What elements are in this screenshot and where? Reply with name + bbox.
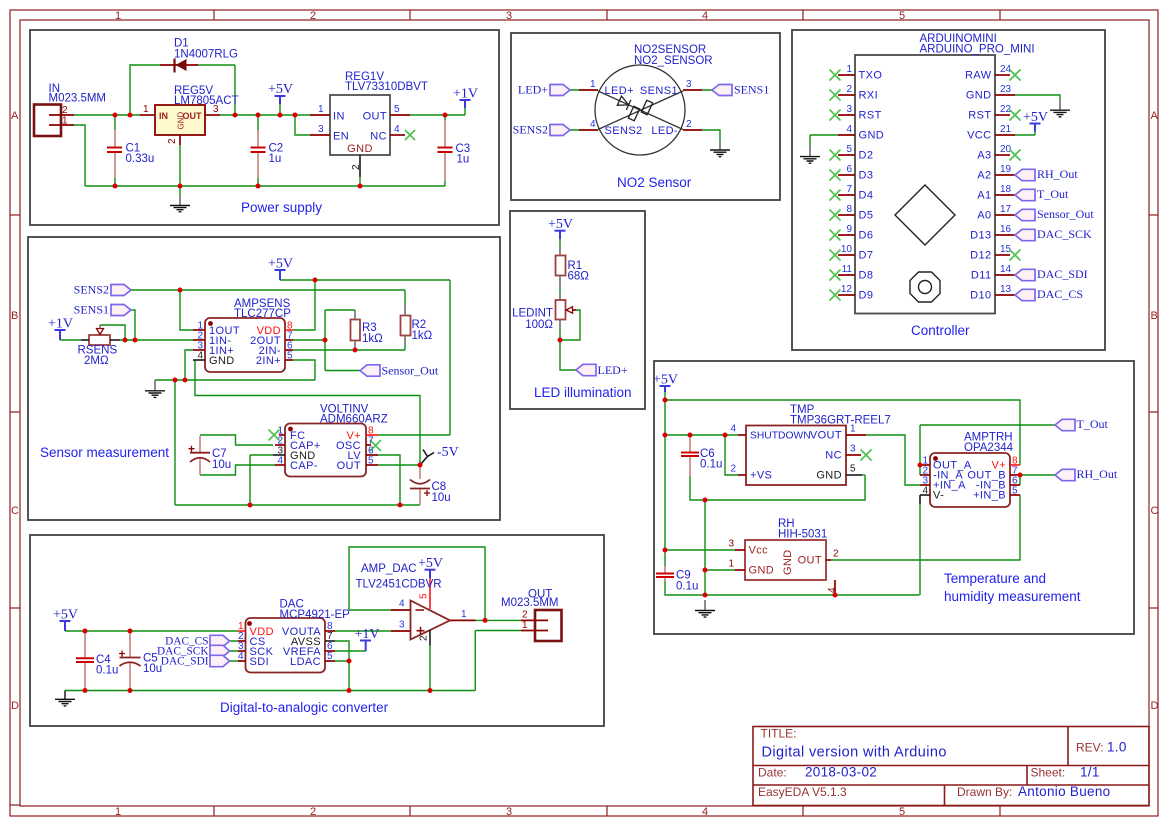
svg-text:LED+: LED+ bbox=[605, 85, 634, 97]
svg-text:5: 5 bbox=[327, 651, 333, 662]
svg-text:M023.5MM: M023.5MM bbox=[501, 597, 559, 609]
svg-text:11: 11 bbox=[842, 264, 853, 275]
svg-text:D10: D10 bbox=[970, 290, 991, 302]
svg-text:D5: D5 bbox=[859, 210, 874, 222]
svg-text:9: 9 bbox=[846, 224, 852, 235]
svg-text:3: 3 bbox=[846, 104, 852, 115]
svg-text:2: 2 bbox=[351, 164, 362, 170]
svg-text:LED illumination: LED illumination bbox=[534, 385, 632, 400]
svg-text:1/1: 1/1 bbox=[1080, 765, 1100, 780]
svg-text:5: 5 bbox=[287, 351, 293, 362]
svg-text:D7: D7 bbox=[859, 250, 874, 262]
svg-text:4: 4 bbox=[399, 599, 405, 610]
svg-text:RH_Out: RH_Out bbox=[1077, 467, 1118, 481]
svg-text:OPA2344: OPA2344 bbox=[964, 442, 1014, 454]
svg-text:SENS2: SENS2 bbox=[74, 283, 109, 297]
svg-text:3: 3 bbox=[686, 79, 692, 90]
svg-text:RXI: RXI bbox=[859, 90, 879, 102]
svg-text:Controller: Controller bbox=[911, 323, 970, 338]
svg-text:2018-03-02: 2018-03-02 bbox=[805, 765, 877, 780]
svg-text:10u: 10u bbox=[212, 459, 231, 471]
svg-text:T_Out: T_Out bbox=[1077, 417, 1109, 431]
svg-text:+1V: +1V bbox=[355, 627, 380, 642]
svg-text:RST: RST bbox=[859, 110, 882, 122]
svg-text:SENS1: SENS1 bbox=[734, 82, 769, 96]
svg-text:4: 4 bbox=[702, 806, 708, 818]
svg-text:Sensor_Out: Sensor_Out bbox=[382, 364, 439, 378]
svg-text:B: B bbox=[1151, 310, 1158, 322]
svg-text:DAC_SDI: DAC_SDI bbox=[1037, 267, 1088, 281]
svg-text:68Ω: 68Ω bbox=[568, 271, 590, 283]
svg-text:1: 1 bbox=[461, 609, 467, 620]
svg-text:D6: D6 bbox=[859, 230, 874, 242]
svg-text:4: 4 bbox=[277, 456, 283, 467]
svg-text:1u: 1u bbox=[269, 153, 282, 165]
svg-text:3: 3 bbox=[399, 620, 405, 631]
svg-text:3: 3 bbox=[728, 539, 734, 550]
svg-text:REV:: REV: bbox=[1076, 741, 1104, 755]
svg-text:NO2_SENSOR: NO2_SENSOR bbox=[634, 55, 713, 67]
svg-text:18: 18 bbox=[1000, 184, 1012, 195]
svg-text:D: D bbox=[11, 700, 19, 712]
svg-text:0.1u: 0.1u bbox=[676, 581, 698, 593]
svg-text:SENS1: SENS1 bbox=[74, 303, 109, 317]
svg-text:humidity measurement: humidity measurement bbox=[944, 589, 1081, 604]
svg-text:LED-: LED- bbox=[651, 125, 678, 137]
svg-text:D4: D4 bbox=[859, 190, 874, 202]
svg-text:4: 4 bbox=[238, 651, 244, 662]
svg-text:1kΩ: 1kΩ bbox=[412, 330, 433, 342]
svg-text:D13: D13 bbox=[970, 230, 991, 242]
svg-text:NO2 Sensor: NO2 Sensor bbox=[617, 175, 692, 190]
svg-text:3: 3 bbox=[506, 806, 512, 818]
svg-text:VCC: VCC bbox=[967, 130, 991, 142]
svg-text:LDAC: LDAC bbox=[290, 656, 321, 668]
svg-text:Drawn By:: Drawn By: bbox=[957, 785, 1012, 799]
svg-text:SENS2: SENS2 bbox=[513, 122, 548, 136]
svg-text:17: 17 bbox=[1000, 204, 1012, 215]
svg-text:D11: D11 bbox=[971, 270, 992, 282]
svg-text:2: 2 bbox=[62, 105, 68, 116]
svg-text:ADM660ARZ: ADM660ARZ bbox=[320, 414, 388, 426]
svg-text:RH_Out: RH_Out bbox=[1037, 167, 1078, 181]
svg-text:+1V: +1V bbox=[453, 87, 478, 102]
svg-text:2: 2 bbox=[167, 138, 178, 144]
svg-text:GND: GND bbox=[177, 112, 186, 130]
svg-text:+5V: +5V bbox=[548, 217, 573, 232]
svg-text:SHUTDOWN: SHUTDOWN bbox=[750, 431, 811, 442]
svg-text:LED+: LED+ bbox=[518, 82, 548, 96]
svg-text:A0: A0 bbox=[977, 210, 991, 222]
svg-text:SENS2: SENS2 bbox=[605, 125, 643, 137]
svg-text:GND: GND bbox=[782, 549, 794, 575]
svg-text:Sensor measurement: Sensor measurement bbox=[40, 445, 169, 460]
svg-text:D9: D9 bbox=[859, 290, 874, 302]
svg-text:NC: NC bbox=[370, 131, 387, 143]
svg-text:2: 2 bbox=[419, 635, 430, 641]
svg-text:RAW: RAW bbox=[965, 70, 992, 82]
svg-text:6: 6 bbox=[846, 164, 852, 175]
svg-text:2: 2 bbox=[522, 610, 528, 621]
svg-text:C: C bbox=[1151, 505, 1159, 517]
svg-text:1: 1 bbox=[115, 806, 121, 818]
svg-text:5: 5 bbox=[899, 10, 905, 22]
svg-text:2IN+: 2IN+ bbox=[256, 355, 281, 367]
svg-text:GND: GND bbox=[966, 90, 992, 102]
svg-text:0.1u: 0.1u bbox=[96, 665, 118, 677]
svg-text:Power supply: Power supply bbox=[241, 200, 322, 215]
svg-text:2: 2 bbox=[846, 84, 852, 95]
svg-text:2: 2 bbox=[686, 119, 692, 130]
svg-text:4: 4 bbox=[846, 124, 852, 135]
svg-text:B: B bbox=[11, 310, 18, 322]
svg-text:GND: GND bbox=[209, 355, 235, 367]
svg-text:A1: A1 bbox=[977, 190, 991, 202]
svg-text:Sensor_Out: Sensor_Out bbox=[1037, 207, 1094, 221]
svg-text:LED+: LED+ bbox=[598, 363, 628, 377]
svg-text:19: 19 bbox=[1000, 164, 1012, 175]
svg-text:100Ω: 100Ω bbox=[525, 319, 553, 331]
svg-text:1: 1 bbox=[143, 104, 149, 115]
svg-text:8: 8 bbox=[846, 204, 852, 215]
svg-text:SDI: SDI bbox=[250, 656, 270, 668]
svg-text:1: 1 bbox=[728, 559, 734, 570]
svg-text:MCP4921-EP: MCP4921-EP bbox=[280, 609, 351, 621]
svg-text:+5V: +5V bbox=[268, 257, 293, 272]
svg-text:DAC_SDI: DAC_SDI bbox=[161, 656, 209, 668]
svg-text:A: A bbox=[11, 110, 19, 122]
svg-text:Digital version with Arduino: Digital version with Arduino bbox=[762, 745, 947, 761]
svg-text:IN: IN bbox=[333, 111, 345, 123]
svg-text:4: 4 bbox=[394, 124, 400, 135]
svg-text:Antonio Bueno: Antonio Bueno bbox=[1018, 784, 1110, 799]
svg-text:1: 1 bbox=[115, 10, 121, 22]
svg-text:EasyEDA V5.1.3: EasyEDA V5.1.3 bbox=[758, 785, 847, 799]
svg-text:3: 3 bbox=[506, 10, 512, 22]
svg-text:EN: EN bbox=[333, 131, 349, 143]
svg-text:1.0: 1.0 bbox=[1107, 740, 1127, 755]
svg-text:5: 5 bbox=[899, 806, 905, 818]
svg-text:3: 3 bbox=[850, 444, 856, 455]
svg-text:23: 23 bbox=[1000, 84, 1012, 95]
svg-text:Date:: Date: bbox=[758, 766, 787, 780]
svg-text:DAC_SCK: DAC_SCK bbox=[1037, 227, 1092, 241]
svg-text:5: 5 bbox=[368, 456, 374, 467]
svg-text:16: 16 bbox=[1000, 224, 1012, 235]
svg-text:D3: D3 bbox=[859, 170, 874, 182]
svg-text:0.33u: 0.33u bbox=[126, 153, 155, 165]
svg-text:OUT: OUT bbox=[798, 555, 822, 567]
svg-text:12: 12 bbox=[841, 284, 853, 295]
svg-text:D8: D8 bbox=[859, 270, 874, 282]
svg-text:1: 1 bbox=[850, 424, 856, 435]
svg-text:IN: IN bbox=[159, 111, 168, 121]
svg-text:1kΩ: 1kΩ bbox=[362, 333, 383, 345]
svg-text:+VS: +VS bbox=[750, 470, 772, 482]
svg-text:7: 7 bbox=[846, 184, 852, 195]
svg-text:GND: GND bbox=[347, 143, 373, 155]
svg-text:M023.5MM: M023.5MM bbox=[49, 93, 107, 105]
svg-text:2: 2 bbox=[310, 10, 316, 22]
svg-text:2: 2 bbox=[730, 464, 736, 475]
svg-text:1N4007RLG: 1N4007RLG bbox=[174, 49, 238, 61]
svg-text:5: 5 bbox=[419, 593, 430, 599]
svg-text:+5V: +5V bbox=[1023, 110, 1048, 125]
svg-text:RST: RST bbox=[968, 110, 991, 122]
svg-text:+5V: +5V bbox=[268, 82, 293, 97]
svg-text:TXO: TXO bbox=[859, 70, 883, 82]
svg-text:DAC_CS: DAC_CS bbox=[1037, 287, 1083, 301]
svg-text:CAP-: CAP- bbox=[290, 460, 318, 472]
svg-text:TLV2451CDBVR: TLV2451CDBVR bbox=[356, 579, 442, 591]
svg-text:HIH-5031: HIH-5031 bbox=[778, 529, 827, 541]
svg-text:GND: GND bbox=[816, 470, 842, 482]
svg-text:1: 1 bbox=[590, 79, 596, 90]
svg-text:A3: A3 bbox=[977, 150, 991, 162]
svg-text:-5V: -5V bbox=[437, 445, 459, 460]
svg-text:10: 10 bbox=[841, 244, 853, 255]
svg-text:Digital-to-analogic converter: Digital-to-analogic converter bbox=[220, 700, 389, 715]
svg-text:Vcc: Vcc bbox=[749, 545, 769, 557]
svg-text:ARDUINO_PRO_MINI: ARDUINO_PRO_MINI bbox=[920, 44, 1035, 56]
svg-text:C: C bbox=[11, 505, 19, 517]
svg-text:5: 5 bbox=[1012, 486, 1018, 497]
svg-text:3: 3 bbox=[318, 124, 324, 135]
svg-text:TMP36GRT-REEL7: TMP36GRT-REEL7 bbox=[790, 415, 891, 427]
svg-text:1: 1 bbox=[846, 64, 852, 75]
svg-text:0.1u: 0.1u bbox=[700, 459, 722, 471]
svg-text:5: 5 bbox=[850, 464, 856, 475]
svg-text:4: 4 bbox=[702, 10, 708, 22]
svg-text:5: 5 bbox=[394, 104, 400, 115]
svg-text:1: 1 bbox=[318, 104, 324, 115]
svg-text:2: 2 bbox=[833, 549, 839, 560]
svg-text:D12: D12 bbox=[970, 250, 991, 262]
svg-text:V-: V- bbox=[933, 490, 944, 502]
svg-text:GND: GND bbox=[749, 565, 775, 577]
svg-text:+5V: +5V bbox=[653, 373, 678, 388]
svg-text:2MΩ: 2MΩ bbox=[84, 355, 109, 367]
svg-text:4: 4 bbox=[590, 119, 596, 130]
svg-text:2: 2 bbox=[310, 806, 316, 818]
svg-text:Temperature and: Temperature and bbox=[944, 571, 1046, 586]
svg-text:OUT: OUT bbox=[363, 111, 387, 123]
svg-text:SENS1: SENS1 bbox=[640, 85, 678, 97]
svg-text:5: 5 bbox=[846, 144, 852, 155]
svg-text:1: 1 bbox=[62, 116, 68, 127]
svg-text:D2: D2 bbox=[859, 150, 874, 162]
svg-text:1u: 1u bbox=[457, 154, 470, 166]
svg-text:AMP_DAC: AMP_DAC bbox=[361, 563, 417, 575]
svg-text:13: 13 bbox=[1000, 284, 1012, 295]
svg-text:+1V: +1V bbox=[48, 317, 73, 332]
svg-text:+5V: +5V bbox=[53, 608, 78, 623]
svg-text:4: 4 bbox=[922, 486, 928, 497]
svg-text:OUT: OUT bbox=[337, 460, 361, 472]
svg-text:TLV73310DBVT: TLV73310DBVT bbox=[345, 81, 428, 93]
svg-text:D: D bbox=[1151, 700, 1159, 712]
svg-text:A: A bbox=[1151, 110, 1159, 122]
svg-text:LM7805ACT: LM7805ACT bbox=[174, 95, 239, 107]
svg-text:VOUT: VOUT bbox=[810, 430, 842, 442]
svg-text:NC: NC bbox=[825, 450, 842, 462]
svg-text:4: 4 bbox=[827, 587, 838, 593]
svg-text:+5V: +5V bbox=[418, 556, 443, 571]
svg-text:1: 1 bbox=[522, 620, 528, 631]
svg-text:10u: 10u bbox=[143, 663, 162, 675]
svg-text:GND: GND bbox=[859, 130, 885, 142]
svg-text:21: 21 bbox=[1000, 124, 1012, 135]
svg-text:Sheet:: Sheet: bbox=[1031, 766, 1066, 780]
svg-text:+IN_B: +IN_B bbox=[973, 490, 1006, 502]
svg-text:TLC277CP: TLC277CP bbox=[234, 308, 291, 320]
svg-text:14: 14 bbox=[1000, 264, 1012, 275]
svg-text:10u: 10u bbox=[432, 492, 451, 504]
svg-text:4: 4 bbox=[730, 424, 736, 435]
svg-text:LEDINT: LEDINT bbox=[512, 308, 553, 320]
svg-text:TITLE:: TITLE: bbox=[761, 727, 797, 741]
svg-text:T_Out: T_Out bbox=[1037, 187, 1069, 201]
svg-text:A2: A2 bbox=[977, 170, 991, 182]
svg-text:4: 4 bbox=[197, 351, 203, 362]
